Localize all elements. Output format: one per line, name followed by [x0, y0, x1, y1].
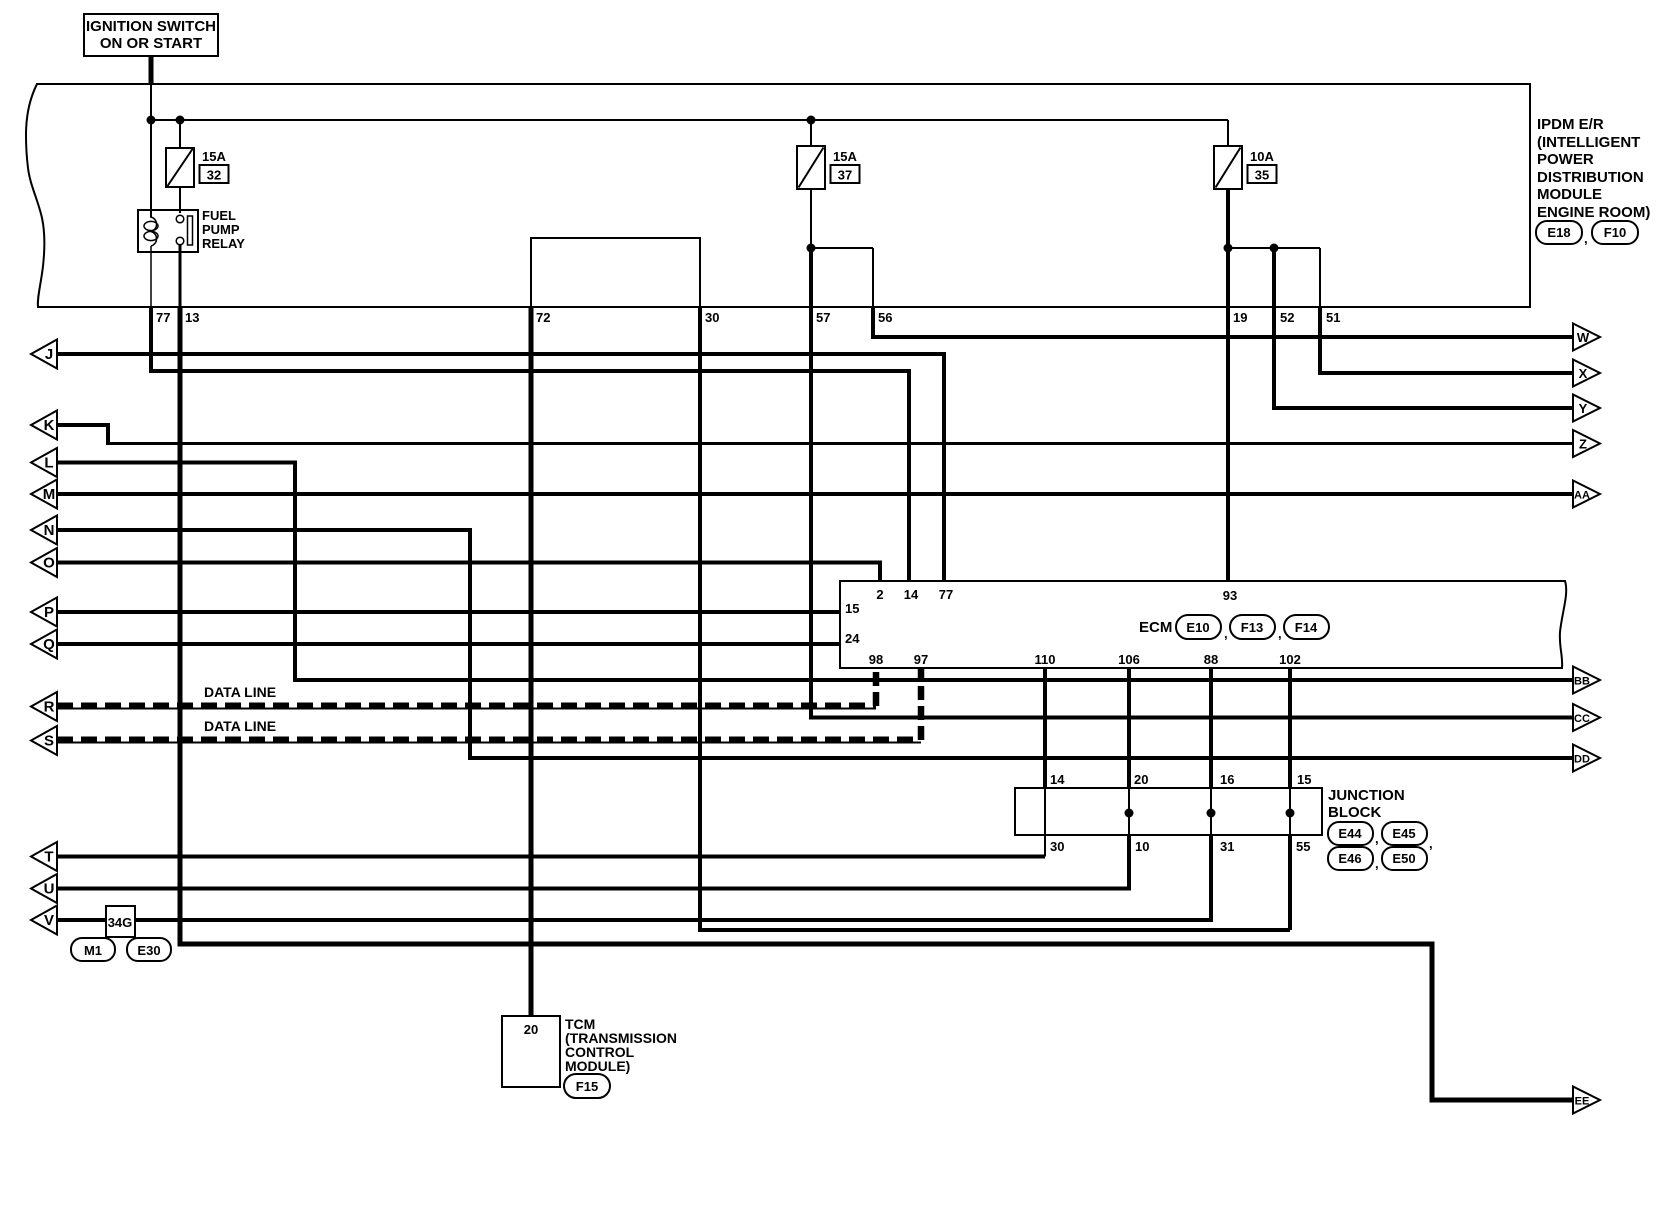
svg-text:IGNITION SWITCH: IGNITION SWITCH: [86, 18, 216, 35]
svg-text:20: 20: [524, 1022, 538, 1037]
svg-text:30: 30: [705, 310, 719, 325]
svg-text:BB: BB: [1574, 676, 1590, 688]
svg-text:,: ,: [1278, 626, 1282, 641]
svg-text:CC: CC: [1574, 713, 1590, 725]
svg-text:DATA LINE: DATA LINE: [204, 684, 276, 700]
svg-text:16: 16: [1220, 772, 1234, 787]
svg-text:S: S: [44, 733, 54, 750]
svg-text:E50: E50: [1392, 851, 1415, 866]
svg-text:15A: 15A: [833, 149, 857, 164]
svg-text:51: 51: [1326, 310, 1340, 325]
svg-text:98: 98: [869, 652, 883, 667]
svg-text:102: 102: [1279, 652, 1301, 667]
svg-text:(INTELLIGENT: (INTELLIGENT: [1537, 134, 1640, 151]
svg-text:MODULE): MODULE): [565, 1058, 630, 1074]
svg-text:IPDM E/R: IPDM E/R: [1537, 116, 1604, 133]
svg-text:R: R: [44, 699, 55, 716]
svg-text:PUMP: PUMP: [202, 222, 240, 237]
svg-text:E45: E45: [1392, 826, 1415, 841]
svg-text:T: T: [44, 849, 53, 866]
svg-text:AA: AA: [1574, 490, 1590, 502]
svg-text:110: 110: [1035, 652, 1056, 667]
svg-text:14: 14: [1050, 772, 1065, 787]
svg-text:Q: Q: [43, 636, 55, 653]
svg-text:U: U: [44, 881, 55, 898]
svg-text:DISTRIBUTION: DISTRIBUTION: [1537, 169, 1644, 186]
svg-text:55: 55: [1296, 839, 1310, 854]
svg-text:RELAY: RELAY: [202, 236, 245, 251]
svg-text:19: 19: [1233, 310, 1247, 325]
svg-text:POWER: POWER: [1537, 151, 1594, 168]
svg-text:F15: F15: [576, 1079, 598, 1094]
svg-text:24: 24: [845, 631, 860, 646]
svg-text:ENGINE ROOM): ENGINE ROOM): [1537, 204, 1650, 221]
svg-text:O: O: [43, 555, 55, 572]
svg-text:ON OR START: ON OR START: [100, 35, 202, 52]
svg-text:BLOCK: BLOCK: [1328, 804, 1381, 821]
svg-text:F14: F14: [1295, 620, 1318, 635]
svg-text:72: 72: [536, 310, 550, 325]
svg-text:J: J: [45, 346, 53, 363]
svg-text:30: 30: [1050, 839, 1064, 854]
svg-text:M1: M1: [84, 943, 102, 958]
svg-text:F10: F10: [1604, 225, 1626, 240]
svg-text:10: 10: [1135, 839, 1149, 854]
svg-text:K: K: [44, 417, 55, 434]
svg-text:31: 31: [1220, 839, 1234, 854]
svg-text:M: M: [43, 486, 56, 503]
svg-text:,: ,: [1375, 831, 1379, 846]
svg-text:106: 106: [1118, 652, 1140, 667]
svg-text:20: 20: [1134, 772, 1148, 787]
svg-text:34G: 34G: [108, 915, 133, 930]
svg-text:,: ,: [1224, 626, 1228, 641]
svg-text:F13: F13: [1241, 620, 1263, 635]
svg-text:14: 14: [904, 587, 919, 602]
svg-text:L: L: [44, 455, 53, 472]
svg-text:V: V: [44, 912, 54, 929]
svg-text:52: 52: [1280, 310, 1294, 325]
svg-text:88: 88: [1204, 652, 1218, 667]
svg-text:JUNCTION: JUNCTION: [1328, 787, 1405, 804]
svg-text:2: 2: [876, 587, 883, 602]
svg-text:97: 97: [914, 652, 928, 667]
svg-text:N: N: [44, 522, 55, 539]
svg-text:15: 15: [845, 601, 859, 616]
svg-text:,: ,: [1584, 231, 1588, 246]
svg-text:E44: E44: [1338, 826, 1362, 841]
svg-text:E30: E30: [137, 943, 160, 958]
svg-text:ECM: ECM: [1139, 619, 1172, 636]
svg-text:E46: E46: [1338, 851, 1361, 866]
svg-text:Y: Y: [1579, 401, 1588, 416]
svg-text:,: ,: [1429, 836, 1433, 851]
svg-text:EE: EE: [1575, 1096, 1590, 1108]
svg-text:77: 77: [156, 310, 170, 325]
svg-text:MODULE: MODULE: [1537, 186, 1602, 203]
svg-text:E18: E18: [1547, 225, 1570, 240]
svg-text:E10: E10: [1186, 620, 1209, 635]
svg-text:P: P: [44, 604, 54, 621]
svg-text:32: 32: [207, 168, 221, 183]
svg-text:15A: 15A: [202, 149, 226, 164]
svg-text:FUEL: FUEL: [202, 208, 236, 223]
svg-text:13: 13: [185, 310, 199, 325]
svg-text:,: ,: [1375, 856, 1379, 871]
svg-text:15: 15: [1297, 772, 1311, 787]
svg-text:10A: 10A: [1250, 149, 1274, 164]
svg-text:77: 77: [939, 587, 953, 602]
svg-text:X: X: [1579, 366, 1588, 381]
svg-text:DATA LINE: DATA LINE: [204, 718, 276, 734]
svg-text:37: 37: [838, 168, 852, 183]
svg-text:35: 35: [1255, 168, 1269, 183]
svg-text:93: 93: [1223, 588, 1237, 603]
svg-text:56: 56: [878, 310, 892, 325]
svg-text:DD: DD: [1574, 754, 1590, 766]
svg-text:W: W: [1577, 330, 1590, 345]
svg-text:Z: Z: [1579, 437, 1587, 452]
svg-text:57: 57: [816, 310, 830, 325]
